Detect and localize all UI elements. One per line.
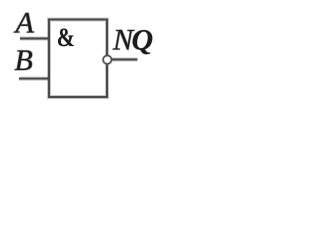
svg-text:Q: Q xyxy=(132,24,154,57)
svg-text:B: B xyxy=(15,44,33,77)
svg-text:&: & xyxy=(57,23,75,52)
svg-text:A: A xyxy=(14,7,35,40)
